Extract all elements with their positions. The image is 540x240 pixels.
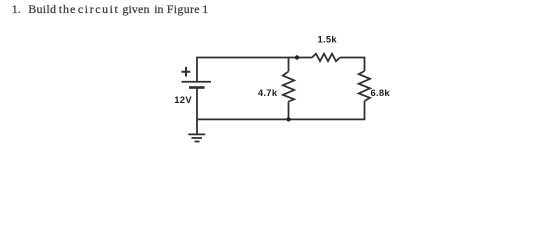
svg-text:1.BuildthecircuitgiveninFigure: 1.BuildthecircuitgiveninFigure1 [12, 2, 208, 16]
wire: 6.8k bottom lead, bottom rail back to battery negative [197, 101, 365, 119]
battery plus sign [182, 67, 191, 77]
svg-text:6.8k: 6.8k [371, 87, 391, 98]
svg-text:4.7k: 4.7k [258, 87, 278, 98]
node dot: junction of 4.7k / 1.5k on top rail [295, 55, 299, 59]
wire: 4.7k top lead from top rail [288, 58, 290, 72]
node dot: junction of 4.7k on bottom rail [286, 117, 290, 121]
svg-text:1.5k: 1.5k [318, 33, 338, 44]
wire: 4.7k bottom lead to bottom rail [288, 102, 290, 120]
wire: top rail from battery positive up and right to 1.5k left end [197, 58, 312, 82]
ground [188, 134, 205, 141]
battery V1 positive plate [182, 81, 212, 83]
wire: battery negative down to ground [196, 88, 198, 135]
wire: from 1.5k right end to top-right corner and down to 6.8k [340, 58, 365, 72]
svg-text:12V: 12V [174, 94, 192, 105]
resistor R3 6.8k (vertical zigzag) [359, 71, 370, 101]
battery V1 negative plate [189, 86, 205, 89]
resistor R2 1.5k (horizontal zigzag) [312, 54, 340, 62]
resistor R1 4.7k (vertical zigzag) [283, 71, 294, 101]
